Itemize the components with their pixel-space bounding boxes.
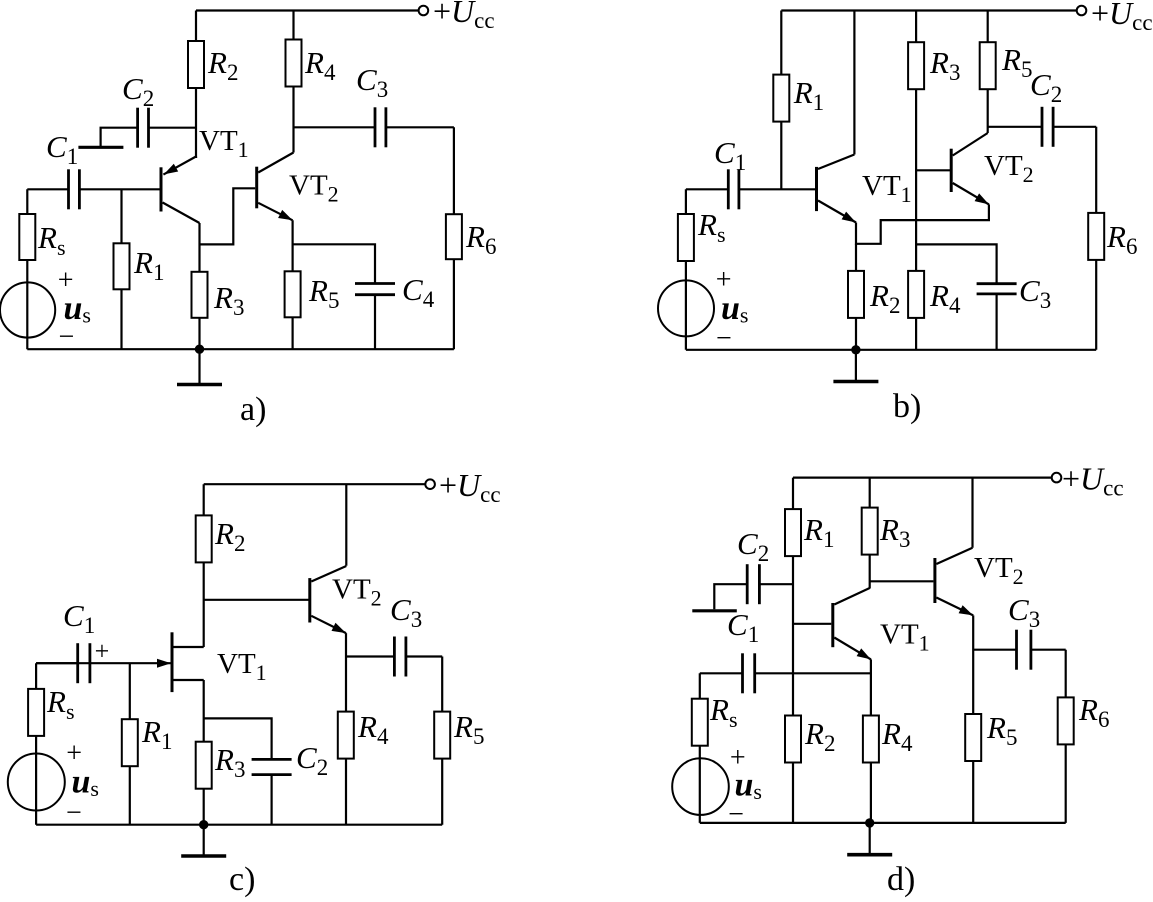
svg-text:−: − bbox=[66, 797, 82, 828]
svg-text:−: − bbox=[716, 323, 732, 354]
svg-text:+: + bbox=[95, 637, 110, 666]
svg-text:d): d) bbox=[887, 861, 915, 898]
svg-text:−: − bbox=[59, 322, 75, 353]
svg-text:−: − bbox=[728, 799, 744, 830]
svg-text:a): a) bbox=[240, 391, 266, 428]
svg-text:c): c) bbox=[229, 861, 255, 898]
svg-text:b): b) bbox=[893, 388, 921, 425]
